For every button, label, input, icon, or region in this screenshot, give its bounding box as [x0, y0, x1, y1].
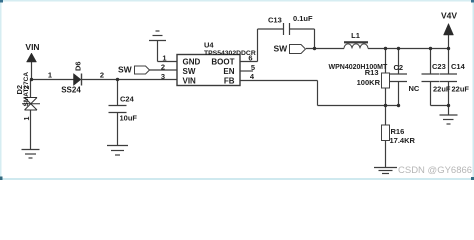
svg-text:C23: C23 — [432, 62, 446, 71]
svg-text:SW: SW — [183, 67, 196, 76]
junction VOUT at R13 — [384, 47, 387, 50]
svg-text:6: 6 — [248, 54, 252, 63]
IC U4 TPS54302DDCR body — [177, 55, 240, 86]
diode D6 symbol — [74, 74, 82, 86]
wire VIN rail to D6 anode — [32, 79, 74, 81]
svg-text:L1: L1 — [351, 31, 360, 40]
power port V4V stem — [448, 35, 450, 49]
wire net label SW to IC pin 2 — [150, 69, 178, 71]
svg-text:0.1uF: 0.1uF — [293, 14, 313, 23]
svg-text:FB: FB — [224, 77, 235, 86]
svg-text:100KR: 100KR — [357, 78, 381, 87]
TVS diode D2 lead bottom — [30, 110, 32, 150]
resistor R13 body — [382, 73, 390, 88]
wire L1 to output — [368, 48, 449, 50]
svg-text:C14: C14 — [451, 62, 466, 71]
wire IC pin 5 EN stub — [240, 70, 253, 72]
junction VOUT at C14/V4V — [447, 47, 450, 50]
junction VIN/D2 node — [30, 78, 33, 81]
TVS diode D2 lead top — [30, 80, 32, 98]
svg-text:1: 1 — [162, 54, 166, 63]
svg-text:C13: C13 — [268, 16, 282, 25]
svg-text:WPN4020H100MT: WPN4020H100MT — [329, 64, 388, 71]
border frame (decorative) — [0, 0, 474, 180]
svg-text:U4: U4 — [204, 41, 214, 50]
ground above IC pin 1 (inverted) — [149, 40, 166, 42]
svg-text:5: 5 — [251, 63, 255, 72]
net label SW (left) pentagon — [135, 66, 150, 74]
svg-text:2: 2 — [161, 63, 165, 72]
svg-text:GND: GND — [183, 58, 201, 67]
junction FB at C2 — [397, 104, 400, 107]
TVS diode D2 symbol — [22, 98, 40, 111]
capacitor C14 leads — [448, 49, 450, 75]
wire IC pin 6 BOOT to C13 — [240, 61, 258, 63]
ground under R16 — [374, 167, 397, 169]
svg-text:SW: SW — [118, 65, 133, 75]
svg-text:VIN: VIN — [183, 77, 197, 86]
wire SW node to L1 — [306, 48, 344, 50]
svg-text:CSDN @GY6866: CSDN @GY6866 — [398, 165, 472, 176]
svg-text:17.4KR: 17.4KR — [390, 136, 416, 145]
svg-text:BOOT: BOOT — [211, 58, 234, 67]
svg-text:R13: R13 — [365, 68, 379, 77]
junction C24 node — [116, 78, 119, 81]
net label SW (right) pentagon — [290, 45, 306, 54]
svg-text:C24: C24 — [120, 95, 135, 104]
power port VIN stem — [31, 62, 33, 80]
svg-text:SS24: SS24 — [61, 86, 81, 95]
svg-text:C2: C2 — [394, 63, 404, 72]
junction GND at C14 — [447, 104, 450, 107]
svg-text:NC: NC — [409, 84, 420, 93]
ground under C24 — [107, 145, 128, 147]
capacitor C2 leads — [398, 49, 400, 75]
inductor L1 symbol — [344, 41, 368, 48]
resistor R16 body — [382, 125, 390, 141]
resistor R13 leads — [385, 49, 387, 74]
wire D6 cathode to IC pin 3 VIN — [82, 79, 177, 81]
svg-text:EN: EN — [223, 67, 234, 76]
power port V4V arrow — [444, 24, 454, 36]
svg-text:V4V: V4V — [441, 11, 457, 21]
svg-text:10uF: 10uF — [120, 114, 138, 123]
capacitor C24 leads — [117, 80, 119, 106]
junction VOUT at C23 — [429, 47, 432, 50]
junction VOUT at C2 — [397, 47, 400, 50]
svg-text:R16: R16 — [391, 127, 405, 136]
svg-text:2: 2 — [24, 86, 31, 90]
wire C13 to SW node — [290, 28, 315, 30]
ground under C14 — [448, 106, 450, 116]
resistor R16 leads — [385, 106, 387, 126]
svg-text:D6: D6 — [74, 61, 83, 71]
wire IC pin 1 GND to ground — [158, 61, 178, 63]
junction SW node at C13 — [313, 47, 316, 50]
svg-text:VIN: VIN — [25, 42, 39, 52]
svg-text:22uF: 22uF — [452, 85, 470, 94]
svg-text:2: 2 — [100, 71, 104, 80]
capacitor C23 leads — [430, 49, 432, 75]
junction FB at R13/R16 — [384, 104, 387, 107]
wire IC pin 4 FB to divider — [240, 80, 318, 82]
svg-text:3: 3 — [161, 72, 165, 81]
ground under D2 — [22, 149, 40, 151]
power port VIN arrow — [27, 53, 37, 62]
capacitor C13 plates — [283, 23, 285, 35]
svg-text:SW: SW — [274, 44, 289, 54]
svg-text:1: 1 — [48, 71, 52, 80]
svg-text:22uF: 22uF — [433, 85, 451, 94]
svg-text:1: 1 — [24, 117, 31, 121]
